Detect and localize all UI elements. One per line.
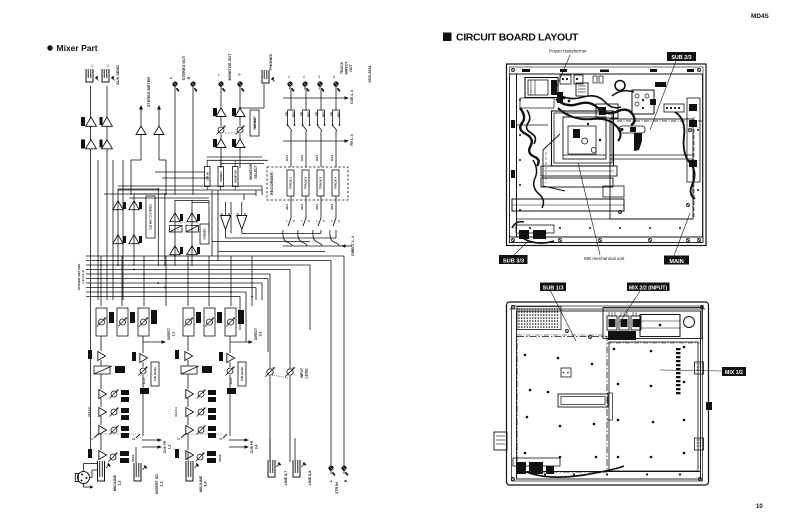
svg-text:MIX 1/2: MIX 1/2	[725, 370, 743, 376]
sub board right rect	[610, 119, 693, 219]
pot CH34 eq low	[198, 427, 204, 433]
svg-text:CUE 1- 4: CUE 1- 4	[350, 90, 354, 104]
wire tie corner verticals	[261, 186, 263, 195]
junction dots bus connections	[100, 264, 102, 266]
channel strip CH12 label box 2	[130, 312, 135, 323]
svg-text:STEREO AUX CUE: STEREO AUX CUE	[77, 264, 81, 291]
board2 bottom screws	[544, 473, 546, 475]
wire XLR connections	[83, 464, 85, 472]
board2 bottom rail line	[517, 471, 700, 473]
label CH34 peak boxes	[207, 451, 216, 456]
svg-text:SELECT: SELECT	[254, 164, 258, 178]
svg-text:R: R	[187, 76, 191, 79]
squiggle gang link stereo faders	[180, 222, 198, 226]
power cable squiggle top	[556, 99, 635, 125]
pot CH12 eq low	[111, 427, 117, 433]
wire mid verticals to bus	[157, 189, 159, 266]
svg-text:STEREO METER: STEREO METER	[147, 77, 151, 107]
wire left area extras board1	[517, 124, 549, 126]
switch monitor select STEREO box	[218, 167, 224, 187]
board2 right PCB outline	[609, 342, 698, 471]
block STEREO box mid	[200, 224, 209, 244]
svg-text:REC: REC	[292, 111, 296, 117]
channel strip CH34 label box 1	[196, 312, 201, 323]
svg-text:R: R	[293, 219, 295, 223]
amp CH12 input stage	[98, 352, 106, 361]
amp CH12 eq low	[99, 426, 107, 435]
power cable squiggle top second	[559, 95, 621, 108]
connector LINE 5,7 jack	[268, 460, 275, 477]
svg-text:DIRECT: DIRECT	[345, 61, 349, 75]
svg-text:TRACK 1: TRACK 1	[289, 176, 293, 189]
svg-text:AD3: AD3	[315, 204, 319, 210]
svg-text:LE VEL: LE VEL	[253, 118, 257, 128]
svg-text:DIRECT 1- 4: DIRECT 1- 4	[351, 236, 355, 256]
pot CH34 cue level	[227, 368, 233, 374]
MD mechanical unit outer	[552, 111, 614, 166]
svg-text:FB: FB	[285, 112, 289, 116]
wire cue mix columns	[117, 189, 119, 266]
board2 left PCB notch step	[607, 392, 613, 394]
recorder block dashed outline	[267, 167, 348, 200]
ring grommet	[615, 81, 625, 91]
svg-text:R: R	[323, 219, 325, 223]
wire select box feeds	[206, 160, 208, 167]
pot CH12 mic gain	[110, 454, 116, 460]
amp CH34 input stage	[185, 352, 193, 361]
connector PHONES jack	[262, 70, 269, 83]
wire harness right side	[675, 112, 695, 199]
board2 left tab out	[494, 432, 507, 450]
board2 DIP strip dotted	[676, 348, 681, 350]
wire sum feeds	[225, 202, 227, 216]
svg-text:DIRECT: DIRECT	[254, 328, 258, 340]
roller detail	[619, 126, 645, 133]
svg-text:MONITOR: MONITOR	[249, 163, 253, 179]
board2 outer chassis	[507, 302, 709, 485]
label SUB 1/3 black tag	[540, 283, 566, 292]
relay pins black	[650, 99, 656, 105]
svg-text:CH 3,4: CH 3,4	[174, 407, 178, 417]
net FB 1-4 arrow	[283, 140, 345, 142]
svg-text:FB: FB	[330, 112, 334, 116]
label CUE LEVEL box CH12	[151, 362, 159, 386]
svg-text:DIRECT: DIRECT	[167, 328, 171, 340]
channel strip CH34 fader slot 3	[225, 308, 236, 336]
wire bus verticals to strips	[100, 256, 102, 306]
svg-text:AD4: AD4	[330, 204, 334, 210]
board1 left rail	[510, 74, 517, 237]
board2 screws near top	[565, 329, 568, 332]
svg-text:3,4: 3,4	[259, 332, 263, 337]
label CH34 eq low boxes	[208, 426, 216, 431]
fader CH12 pad	[94, 366, 110, 374]
board2 inner frame	[512, 306, 703, 481]
board2 right edge tab top	[695, 362, 704, 374]
wire stereo out drops	[174, 90, 176, 195]
board1 outer chassis	[507, 64, 707, 246]
small rect pair center	[603, 186, 624, 197]
net CUE 1-4 arrow	[283, 97, 345, 99]
leader line SUB 1/3	[550, 290, 576, 341]
net CUE PR 3,4 arrows	[229, 439, 245, 441]
svg-text:TRACK 3: TRACK 3	[319, 176, 323, 189]
amp CH12 mic pre	[99, 451, 107, 460]
svg-text:SUB 2/3: SUB 2/3	[671, 55, 691, 61]
svg-text:TRACK 2: TRACK 2	[304, 176, 308, 189]
wire track select collect lines	[242, 233, 321, 235]
svg-text:L: L	[329, 480, 333, 482]
amp U10 monitor drive R	[235, 139, 245, 148]
svg-text:FB: FB	[132, 437, 136, 441]
svg-text:MAIN: MAIN	[669, 259, 683, 265]
screws board1 inner edges	[519, 99, 521, 101]
label CH12 pad box	[115, 366, 125, 373]
svg-text:STEREO: STEREO	[219, 171, 223, 182]
svg-text:1,2: 1,2	[168, 445, 172, 450]
block TRACK 1	[287, 170, 294, 196]
svg-text:1,2: 1,2	[172, 332, 176, 337]
board2 round capacitor	[684, 317, 695, 328]
board2 inner frame 2	[517, 311, 701, 479]
amp CH34 eq low	[186, 426, 194, 435]
svg-text:INSERT I/O: INSERT I/O	[155, 474, 159, 494]
svg-text:OUT: OUT	[349, 63, 353, 71]
board1 inner frame	[517, 74, 703, 237]
amp CH34 eq mid	[186, 408, 194, 417]
connector MIC/LINE 3,4 jack	[186, 461, 193, 481]
board2 connector block 1	[607, 316, 617, 330]
svg-text:REC: REC	[307, 111, 311, 117]
wire 2TR long verticals	[330, 261, 332, 466]
svg-text:1,2: 1,2	[118, 480, 122, 485]
bus line aux 2	[86, 278, 268, 280]
connector 2TR IN R	[341, 465, 346, 470]
svg-text:3: 3	[318, 75, 320, 79]
bus line direct 1	[86, 291, 246, 293]
svg-text:DA2: DA2	[300, 155, 304, 161]
wire select verticals to bus	[211, 190, 213, 256]
amp U8 monitor R	[235, 108, 245, 117]
MD mechanical unit inner	[563, 117, 606, 159]
svg-text:MONITOR OUT: MONITOR OUT	[228, 53, 232, 81]
svg-text:AUX SEND: AUX SEND	[116, 65, 120, 85]
power transformer T1 block	[525, 78, 558, 98]
label SUB 2/3 black tag top	[667, 52, 696, 61]
label CH12 eq high boxes	[121, 390, 129, 395]
block TRACK 3	[317, 170, 324, 196]
net DIRECT 1,2 arrow	[143, 341, 162, 343]
bus line top to 2TR R corner	[86, 255, 344, 257]
label CH34 pad box	[202, 366, 212, 373]
svg-text:R: R	[308, 219, 310, 223]
wire insert jack link	[91, 470, 93, 478]
board2 connector top pins	[608, 312, 610, 316]
svg-text:2TR IN: 2TR IN	[205, 172, 209, 180]
pot input level A	[267, 369, 273, 375]
switch CH34 UL FB row	[181, 434, 185, 438]
wire stereo master top ties	[175, 200, 209, 202]
wire track drops to recorder	[290, 90, 292, 110]
label CH12 peak boxes	[120, 451, 129, 456]
svg-text:UL: UL	[177, 437, 181, 441]
amp U14 cue mix 4	[129, 235, 139, 244]
channel strip CH12 fader slot 1	[96, 308, 107, 336]
svg-text:10: 10	[756, 504, 763, 510]
svg-text:INPUT: INPUT	[300, 367, 304, 378]
channel strip CH34 fader slot 1	[183, 308, 194, 336]
board2 side knob black	[706, 402, 712, 410]
svg-text:CIRCUIT BOARD LAYOUT: CIRCUIT BOARD LAYOUT	[456, 32, 579, 44]
bus line cue R	[86, 287, 256, 289]
bus line aux 1	[86, 273, 270, 275]
svg-text:DA1: DA1	[285, 155, 289, 161]
component heatsink bars	[576, 83, 588, 96]
svg-text:DA4: DA4	[330, 155, 334, 161]
bus line direct 2	[86, 296, 240, 298]
svg-text:PEAK: PEAK	[131, 454, 135, 461]
svg-text:CUE LEVEL: CUE LEVEL	[153, 366, 157, 381]
svg-text:REC: REC	[322, 111, 326, 117]
svg-text:AD1: AD1	[285, 204, 289, 210]
cable loop around relay	[612, 91, 634, 96]
svg-text:Power transformer: Power transformer	[549, 49, 587, 54]
svg-text:CUE PR: CUE PR	[250, 440, 254, 453]
section bullet Mixer Part	[47, 45, 52, 50]
svg-text:PHONES: PHONES	[269, 54, 273, 71]
amp U7 monitor L	[216, 108, 226, 117]
net DIRECT 3,4 arrow	[230, 341, 249, 343]
svg-text:2: 2	[303, 75, 305, 79]
amp CH34 second stage	[227, 354, 235, 363]
connector 2TR IN L	[328, 465, 333, 470]
leader line MIX 2/2	[620, 291, 640, 322]
label CH34 eq high boxes	[208, 390, 216, 395]
amp U16 stereo master R in	[187, 213, 197, 222]
fader stereo master R	[186, 226, 199, 233]
board2 connector block 3	[631, 316, 641, 330]
board1 bottom rail	[510, 237, 704, 243]
amp U5 meter L with arrow	[140, 109, 142, 126]
sub board rail lines	[610, 154, 693, 156]
wire track select curves to direct line	[283, 230, 292, 246]
pot CH12 eq high	[111, 391, 117, 397]
MD unit mount bar 2	[541, 178, 613, 187]
fader CH34 pad	[181, 366, 197, 374]
switch track output select 3	[318, 218, 321, 226]
svg-text:Mixer Part: Mixer Part	[57, 43, 98, 53]
svg-text:CUE MIX TO STEREO: CUE MIX TO STEREO	[149, 204, 153, 230]
amp CH12 eq mid	[99, 408, 107, 417]
leader line MD mechanical unit	[578, 163, 600, 255]
switch track output select 4	[333, 218, 336, 226]
pot CH12 cue level	[140, 368, 146, 374]
horizontal rail above bottom	[516, 218, 693, 220]
board2 display window outer	[558, 394, 608, 407]
channel strip CH12 label box 1	[109, 312, 114, 323]
svg-text:1: 1	[288, 75, 290, 79]
right tall plate	[687, 98, 700, 182]
wire bus corner drop verticals	[245, 292, 247, 342]
svg-text:SUB 3/3: SUB 3/3	[503, 258, 524, 264]
wire recorder DA feeds	[290, 136, 292, 167]
amp U19 sum L big	[221, 216, 231, 230]
MD unit mount bar 1	[541, 166, 617, 176]
wire monitor to select	[220, 148, 222, 168]
bracket black wedge	[634, 133, 642, 151]
wire mid horizontal ties	[118, 185, 262, 187]
label FLAT box CH34	[227, 388, 236, 394]
component small dark block	[596, 104, 618, 118]
pot VR2 monitor level R	[237, 127, 243, 133]
channel strip CH34 label box 2	[217, 312, 222, 323]
svg-text:MONITOR: MONITOR	[233, 170, 237, 182]
board2 top rail	[510, 308, 706, 310]
section heading CIRCUIT BOARD LAYOUT	[443, 33, 452, 42]
amp U18 stereo master R out	[187, 246, 197, 255]
wire input level columns	[269, 376, 271, 462]
svg-text:L R 1 2 L R: L R 1 2 L R	[81, 270, 85, 283]
svg-text:SUB 1/3: SUB 1/3	[543, 286, 564, 292]
wire long vertical input drops left	[90, 86, 92, 452]
svg-text:FB: FB	[219, 437, 223, 441]
label CUE MIX TO STEREO box	[146, 196, 155, 238]
net DIRECT 1-4 arrow	[341, 244, 346, 248]
channel strip CH34 fader slot 2	[204, 308, 215, 336]
board2 large block right	[640, 315, 680, 337]
ferrite label black	[655, 82, 666, 87]
power cable squiggle left	[520, 108, 539, 166]
svg-text:TRACK: TRACK	[340, 61, 344, 74]
svg-text:TRACK 4: TRACK 4	[334, 176, 338, 189]
wire CH12 dotted switch link	[98, 433, 136, 435]
switch CH12 UL FB row	[94, 434, 98, 438]
wire select feed rows	[207, 156, 262, 158]
power transformer mount detail	[520, 98, 554, 108]
connector XLR mic input	[78, 472, 90, 484]
pot CH34 eq mid	[198, 409, 204, 415]
left trapezoid plate	[543, 134, 565, 191]
cable harness mid	[558, 108, 621, 141]
connector MIC/LINE 1,2 jack	[98, 461, 105, 481]
amp U11 cue mix 1	[113, 201, 123, 210]
svg-text:1,2: 1,2	[160, 481, 164, 486]
dash-dot rail under relay row	[617, 120, 702, 122]
channel strip CH12 fader slot 3	[138, 308, 149, 336]
wire phones drop	[263, 84, 265, 108]
label CH12 eq low boxes	[121, 426, 129, 431]
connector LINE 6,8 jack	[293, 460, 300, 477]
pot CH34 eq high	[198, 391, 204, 397]
switch monitor select MONITOR box	[233, 167, 239, 187]
amp CH34 mic pre	[186, 451, 194, 460]
board2 left PCB dash-dot outline	[517, 337, 607, 473]
relay block K1	[632, 90, 654, 114]
svg-text:CH 1,2: CH 1,2	[87, 407, 91, 417]
screws board1	[618, 128, 621, 131]
board2 vent hole grid	[518, 308, 520, 310]
switch monitor select 2TR IN box	[205, 167, 211, 187]
label MIX 2/2 INPUT black tag	[627, 283, 670, 292]
label CH12 eq mid boxes	[121, 408, 129, 413]
svg-text:CUE LEVEL: CUE LEVEL	[240, 366, 244, 381]
svg-text:1: 1	[91, 64, 93, 68]
block TRACK 4	[332, 170, 339, 196]
pot CH12 eq mid	[111, 409, 117, 415]
board2 right edge tab bottom	[695, 438, 704, 450]
amp U17 stereo master L out	[170, 246, 180, 255]
svg-text:FB: FB	[315, 112, 319, 116]
svg-text:4: 4	[333, 75, 335, 79]
svg-text:PEAK: PEAK	[218, 454, 222, 461]
svg-text:CUE PR: CUE PR	[163, 440, 167, 453]
block TRACK 2	[302, 170, 309, 196]
sub board vertical dash right	[693, 117, 695, 219]
wire dashed monitor gang link	[225, 132, 237, 134]
amp U6 meter R with arrow	[158, 109, 160, 126]
switch track output select 1	[288, 218, 291, 226]
amp U3 aux send 1b	[86, 140, 97, 149]
connector INSERT I/O jack	[134, 463, 141, 481]
svg-text:MD mechanical unit: MD mechanical unit	[584, 256, 625, 261]
board2 bottom connector cluster	[513, 458, 560, 466]
leader line power transformer	[556, 55, 570, 88]
fader stereo master L	[170, 226, 183, 233]
board2 screws scattered	[524, 354, 527, 357]
amp U13 cue mix 3	[113, 235, 123, 244]
channel strip CH12 pan label box	[151, 310, 157, 324]
pot VR1 monitor level L	[218, 127, 224, 133]
svg-text:UL: UL	[90, 437, 94, 441]
label CH34 eq mid boxes	[208, 408, 216, 413]
amp U20 sum R big	[237, 216, 247, 230]
wire cue mix top corners	[118, 188, 158, 190]
wire recorder AD outputs	[290, 196, 292, 218]
wire monitor links	[220, 90, 222, 109]
svg-text:LINE 6,8: LINE 6,8	[308, 471, 312, 486]
board2 dark plate	[608, 331, 636, 340]
label MAIN black tag	[664, 256, 689, 265]
wire monitor pot to amp	[220, 134, 222, 139]
svg-text:STEREO OUT: STEREO OUT	[182, 55, 186, 80]
svg-text:2: 2	[107, 64, 109, 68]
svg-text:MIC/LINE: MIC/LINE	[113, 474, 117, 491]
channel strip CH12 fader slot 2	[117, 308, 128, 336]
wire dotted input level link	[272, 375, 288, 378]
board2 corner screws	[511, 305, 514, 308]
bus line cue L	[86, 282, 262, 284]
svg-text:LEVEL: LEVEL	[305, 368, 309, 379]
board2 top connector area outline	[603, 308, 702, 339]
screws board1 bottom rail	[558, 238, 561, 241]
bus line stereo L	[86, 264, 310, 266]
bus line stereo R	[86, 269, 290, 271]
svg-text:REC: REC	[337, 111, 341, 117]
leader line MIX 1/2	[660, 370, 722, 371]
pot input level B	[287, 369, 293, 375]
amp U4 aux send 2b	[102, 140, 113, 149]
power cable squiggle left second	[527, 110, 536, 144]
svg-text:MD4S: MD4S	[751, 13, 769, 20]
switch track output select 2	[303, 218, 306, 226]
svg-text:L: L	[218, 73, 220, 77]
long bottom bar board1	[512, 199, 624, 211]
amp CH12 eq high	[99, 390, 107, 399]
svg-text:STEREO: STEREO	[203, 227, 207, 239]
leader line SUB 2/3	[650, 61, 676, 130]
svg-text:RECORDER: RECORDER	[269, 172, 274, 195]
wire CH34 dotted switch link	[185, 433, 223, 435]
